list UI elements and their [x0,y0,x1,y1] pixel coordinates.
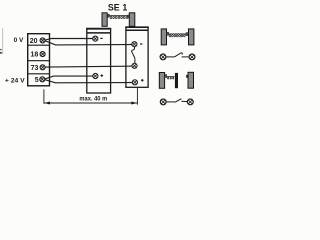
wire [181,100,187,102]
blade with hook [175,53,183,57]
SE1 coil [110,15,129,18]
cable coupling (middle box) [87,29,111,93]
left terminal [160,99,166,105]
terminal 18 screw [40,52,45,57]
svg-text:SE 1: SE 1 [108,3,127,13]
divider 20/18 [28,44,50,46]
coupling top strip line [86,28,111,30]
wire fork from terminal 20 [45,39,132,45]
terminal block (left box) [28,34,50,86]
sensor minus pin [132,42,137,47]
crop artifact left edge [0,28,3,54]
plug pair right nub [186,75,188,78]
plus sign [101,74,104,77]
terminal 20 screw [40,38,45,43]
plug pair socket bar [175,73,178,88]
wire [166,101,175,103]
plug pair right bar [188,72,194,88]
wire from terminal 73 [45,66,132,67]
plug pair coil [167,76,175,79]
legend cable nub left [167,32,169,35]
wire [166,56,175,58]
svg-text:max. 40 m: max. 40 m [79,96,107,103]
dimension extension line right [136,88,138,105]
legend contact symbol middle right [160,53,195,60]
legend cable coil [169,34,186,37]
coupling inner line [87,32,111,34]
svg-text:0 V: 0 V [14,37,24,44]
wire fork from terminal 5 [45,76,133,83]
sensor plus sign [141,79,144,82]
sensor minus sign [140,43,142,45]
SE1 plug nub left [108,14,110,17]
dimension extension line left [43,89,45,103]
right terminal [189,54,195,60]
right terminal [187,99,193,105]
svg-text:+ 24 V: + 24 V [5,77,25,84]
legend contact symbol bottom right [160,99,193,105]
legend cable symbol top right: left bar [161,29,166,45]
left terminal [160,54,166,60]
blade [175,99,182,103]
divider 18/73 [28,60,50,62]
dimension line [44,102,137,104]
legend cable nub right [186,33,188,36]
svg-text:73: 73 [31,65,39,72]
coupling minus pin [93,36,98,41]
svg-text:5: 5 [35,77,39,84]
dimension arrow left [44,102,50,105]
minus sign [100,37,102,39]
dimension arrow right [131,102,137,105]
SE1 plug nub right [128,15,130,18]
wire [182,56,189,58]
sensor top strip line [125,26,148,28]
coupling plus pin [93,73,98,78]
terminal 73 screw [40,65,45,70]
legend plug pair bottom right: left bar [159,73,164,89]
terminal 5 screw [40,77,45,82]
SE1 plug bar right [129,13,135,26]
divider 73/5 [28,73,50,75]
SE1 plug bar left [102,13,107,26]
reed switch contact [131,47,135,64]
svg-text:18: 18 [31,52,39,59]
legend cable symbol: right bar [189,29,194,45]
svg-text:20: 20 [30,38,38,45]
sensor box (right box) [126,27,148,87]
sensor plus pin [132,80,137,85]
sensor inner line [126,29,148,31]
plug pair nub [165,75,167,78]
sensor middle pin [132,63,137,68]
